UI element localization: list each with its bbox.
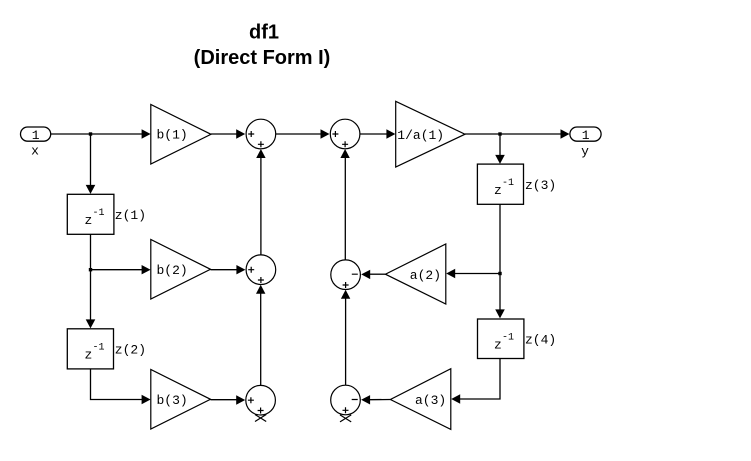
svg-text:z(3): z(3) [525,178,556,193]
svg-text:b(1): b(1) [157,128,188,143]
gain b(1) [151,105,211,165]
svg-text:z: z [85,348,93,363]
wire 1/a(1) to output [465,133,562,135]
svg-text:z: z [85,213,93,228]
svg-text:df1: df1 [249,22,279,44]
sum S5 (bottom-left) [246,385,276,415]
arrowhead into a(3) [451,394,460,403]
svg-text:z(4): z(4) [525,332,556,347]
arrowhead into sum S3 [236,265,245,274]
wire z(2) down and right to b(3) [91,369,144,400]
svg-text:z(2): z(2) [115,343,146,358]
arrowhead into b(3) [142,395,151,404]
svg-text:z: z [494,337,502,352]
wire z(1) down to z(2) [90,234,92,321]
sum S1 (top-left) [246,119,276,149]
arrowhead into S2 bottom [340,149,349,158]
wire a(2) to sum S4 [370,273,386,275]
wire down to z(3) [499,134,501,157]
wire S6 up to S4 [345,297,347,385]
arrowhead into S1 bottom [256,149,265,158]
svg-text:a(3): a(3) [415,393,446,408]
output port y [570,127,601,159]
arrowhead into sum S5 [236,395,245,404]
junction node at a(2) branch [498,272,501,275]
wire branch to a(2) input [454,273,500,275]
delay z(3) [477,164,556,204]
arrowhead into sum S4 [361,270,370,279]
sum S4 (middle-right) [331,260,361,290]
wire branch to b(2) [91,269,144,271]
wire S4 up to S2 [344,157,346,260]
wire S3 up to S1 [260,157,262,255]
svg-text:(Direct Form I): (Direct Form I) [194,47,331,69]
svg-text:b(3): b(3) [157,393,188,408]
arrowhead into sum S2 [321,129,330,138]
input port x [21,127,51,158]
arrowhead into S3 bottom [256,285,265,294]
arrowhead into b(1) [142,129,151,138]
wire z(4) down and left to a(3) input [459,359,500,400]
svg-text:y: y [581,144,589,159]
svg-text:1: 1 [582,128,590,143]
arrowhead into a(2) [446,269,455,278]
delay z(4) [478,319,557,359]
arrowhead into z(3) [495,155,505,164]
wire b(3) to sum S5 [211,399,239,401]
svg-text:-1: -1 [502,332,514,343]
wire b(1) to sum S1 [211,133,237,135]
terminator x below S6 [340,415,351,422]
arrowhead into sum S6 [361,395,370,404]
wire b(2) to sum S3 [211,269,239,271]
junction node after 1/a(1) [498,132,501,135]
svg-text:a(2): a(2) [410,268,441,283]
svg-text:1: 1 [32,128,40,143]
sum S2 (top-right) [330,119,360,149]
arrowhead into output port [561,129,570,138]
wire input to b(1) [51,133,143,135]
gain a(2) [385,244,445,304]
arrowhead into z(2) [86,319,96,328]
sum S3 (middle-left) [246,255,276,285]
wire S5 up to S3 [260,292,262,385]
svg-text:z(1): z(1) [115,208,146,223]
terminator x below S5 [255,415,266,422]
arrowhead into z(1) [86,185,96,194]
delay z(1) [67,194,146,234]
arrowhead into sum S1 [236,129,245,138]
svg-text:z: z [494,183,502,198]
svg-text:-1: -1 [93,343,105,354]
gain 1/a(1) [396,101,465,167]
svg-text:b(2): b(2) [157,263,188,278]
gain a(3) [390,369,450,430]
wire down to z(1) [90,134,92,187]
junction node at input branch [89,132,92,135]
svg-text:-1: -1 [93,208,105,219]
svg-text:x: x [31,143,39,158]
wire S2 to 1/a(1) [360,133,388,135]
gain b(2) [151,240,211,300]
svg-text:-1: -1 [502,178,514,189]
title df1 [194,22,331,70]
wire S1 to S2 [276,133,322,135]
arrowhead into S4 bottom [341,290,350,299]
arrowhead into 1/a(1) [386,129,395,138]
sum S6 (bottom-right) [331,385,361,415]
arrowhead into b(2) [142,265,151,274]
gain b(3) [151,370,211,430]
svg-text:1/a(1): 1/a(1) [397,128,444,143]
arrowhead into z(4) [495,309,505,318]
delay z(2) [67,329,146,369]
wire z(3) down to z(4) [499,204,501,311]
wire a(3) to sum S6 [370,399,391,401]
junction node at b(2) branch [89,268,92,271]
